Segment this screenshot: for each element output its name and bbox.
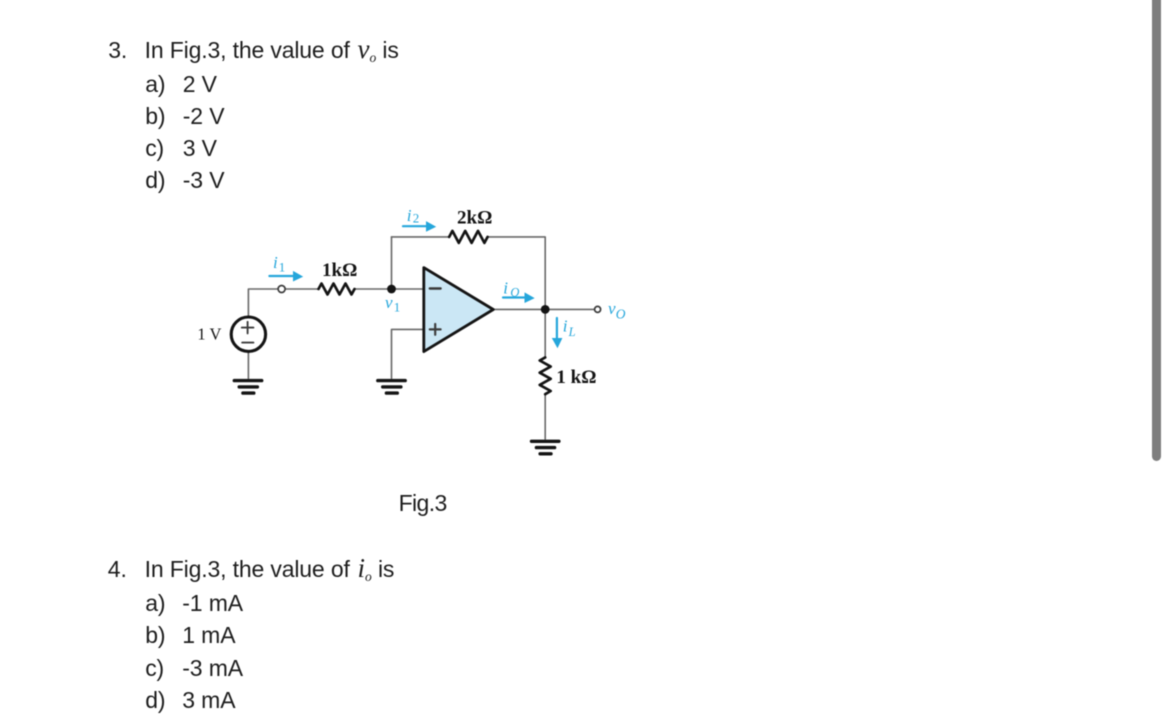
current arrow iL (downward) [552, 318, 563, 348]
wire: feedback top right segment and down to output node [488, 237, 546, 310]
svg-text:i: i [503, 278, 508, 297]
option 4a [145, 592, 165, 615]
current arrow i1 [269, 271, 303, 282]
input terminal (open circle) [278, 286, 285, 293]
svg-text:O: O [616, 307, 626, 322]
svg-text:L: L [568, 325, 576, 339]
option 3b [145, 105, 165, 128]
wire: feedback top left segment [392, 236, 450, 238]
svg-text:i: i [407, 206, 412, 225]
op-amp minus sign [430, 287, 441, 289]
svg-text:O: O [510, 285, 519, 299]
svg-text:v: v [385, 293, 393, 312]
ground (op-amp noninverting input) [378, 381, 405, 394]
wire: op-amp noninverting input to ground [392, 329, 424, 378]
svg-text:1: 1 [279, 259, 286, 274]
option 3c [145, 137, 164, 160]
resistor R1 1kOhm [319, 284, 355, 295]
svg-text:1kΩ: 1kΩ [322, 260, 357, 281]
option 3d [145, 169, 165, 192]
voltage source V1 (1 V) [231, 317, 265, 351]
wire: op-amp output to vo terminal [493, 308, 594, 310]
question 3 text [145, 39, 399, 62]
option 4b [145, 624, 165, 647]
wire: output node to load resistor [544, 309, 546, 357]
svg-text:v: v [608, 299, 616, 318]
question 4 text [145, 558, 395, 581]
wire: resistor R1 to op-amp inverting input [355, 288, 424, 290]
svg-text:1 kΩ: 1 kΩ [556, 367, 596, 388]
wire: load resistor to ground [544, 394, 546, 439]
svg-text:i: i [563, 317, 568, 336]
wire: source bottom to ground [247, 352, 249, 378]
svg-text:1: 1 [394, 300, 401, 315]
ground (load) [532, 441, 559, 454]
resistor R3 1kOhm load (vertical) [540, 357, 551, 394]
option 3a [145, 73, 165, 96]
ground (source) [234, 381, 261, 394]
vo terminal (open circle) [595, 306, 601, 312]
question 4 number [108, 558, 127, 581]
svg-text:2kΩ: 2kΩ [457, 208, 492, 229]
wire: node v1 up to feedback [391, 237, 393, 289]
svg-text:1 V: 1 V [197, 324, 221, 343]
current arrow io [503, 292, 535, 303]
op-amp plus sign [430, 324, 441, 335]
question 3 number [108, 39, 127, 62]
scrollbar thumb [1152, 0, 1161, 461]
op-amp U1 [424, 268, 494, 352]
option 4d [145, 689, 165, 712]
svg-text:i: i [273, 253, 278, 272]
current arrow i2 [403, 221, 436, 232]
figure caption Fig.3 [399, 492, 447, 515]
resistor R2 2kOhm [449, 231, 487, 243]
wire: source top to input terminal [248, 289, 277, 316]
option 4c [145, 657, 164, 680]
node v1 junction dot [387, 285, 396, 294]
output node junction dot [541, 305, 550, 314]
svg-text:2: 2 [413, 210, 420, 225]
wire: terminal to resistor R1 [286, 288, 319, 290]
